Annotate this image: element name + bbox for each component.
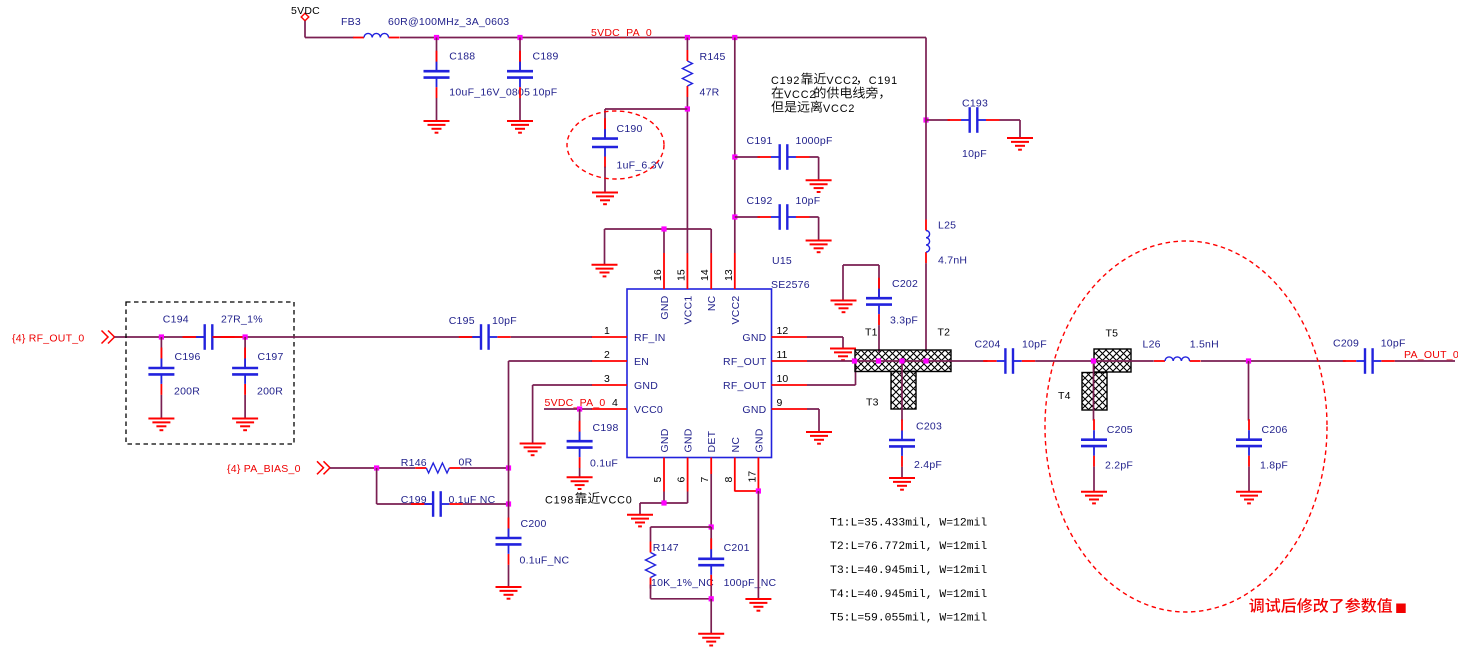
inductor L25 (926, 220, 967, 267)
ground pin9 (806, 432, 832, 444)
svg-text:T3: T3 (866, 397, 879, 409)
annotation C198 (545, 492, 633, 506)
wire (757, 491, 759, 599)
resistor R147 (646, 542, 715, 590)
svg-text:T5:L=59.055mil, W=12mil: T5:L=59.055mil, W=12mil (830, 613, 987, 625)
svg-text:DET: DET (706, 430, 718, 452)
svg-text:11: 11 (777, 349, 788, 361)
svg-text:T4:L=40.945mil, W=12mil: T4:L=40.945mil, W=12mil (830, 589, 987, 601)
wire PA_OUT_0 (1395, 360, 1455, 362)
wire (1201, 360, 1346, 362)
wire through T3 (901, 361, 903, 421)
wire pin11 (807, 360, 855, 362)
svg-text:5VDC_PA_0: 5VDC_PA_0 (591, 27, 652, 39)
ground C202 (831, 301, 857, 313)
svg-text:C191: C191 (869, 75, 898, 87)
wire (579, 468, 581, 477)
junction L25 node (923, 358, 928, 363)
wire (951, 360, 988, 362)
svg-text:SE2576: SE2576 (771, 279, 810, 291)
svg-text:17: 17 (746, 471, 758, 483)
wire pin3 gnd (533, 385, 592, 444)
capacitor C197 (232, 348, 284, 398)
wire (1248, 361, 1250, 421)
svg-text:VCC2: VCC2 (730, 296, 742, 325)
pin 17 GND (bottom) (746, 428, 765, 491)
svg-text:C193: C193 (962, 98, 988, 110)
wire (901, 467, 903, 478)
wire to pin1 (511, 336, 592, 338)
pin 9 GND (742, 397, 807, 416)
svg-text:R145: R145 (700, 51, 726, 63)
svg-text:C202: C202 (892, 278, 918, 290)
port PA_BIAS_0 (227, 461, 330, 475)
svg-text:0.1uF_NC: 0.1uF_NC (520, 555, 570, 567)
ground R147/C201 (698, 634, 724, 646)
svg-text:NC: NC (730, 437, 742, 453)
svg-text:C194: C194 (163, 314, 189, 326)
junction pin16 (661, 226, 666, 231)
svg-text:GND: GND (683, 428, 695, 452)
microstrip T4 (1082, 373, 1107, 411)
wire (710, 527, 712, 557)
svg-text:VCC2: VCC2 (826, 75, 858, 87)
junction C188 tap (434, 35, 439, 40)
junction pin8/17 (756, 488, 761, 493)
dashed box matching network (126, 302, 294, 444)
capacitor C193 (948, 98, 1000, 161)
ground C197 (232, 419, 258, 431)
svg-text:200R: 200R (174, 386, 200, 398)
wire (710, 586, 712, 599)
pin 2 EN (592, 349, 650, 368)
svg-text:14: 14 (699, 269, 711, 281)
svg-text:R147: R147 (653, 542, 679, 554)
annotation T parameters (830, 517, 987, 624)
svg-text:0R: 0R (459, 457, 473, 469)
svg-text:200R: 200R (257, 386, 283, 398)
capacitor C192 (747, 195, 821, 230)
wire (810, 157, 819, 180)
pin 8 NC (bottom) (723, 437, 742, 492)
wire (436, 38, 438, 70)
wire C190 top (605, 109, 687, 138)
svg-text:C205: C205 (1107, 424, 1133, 436)
svg-text:T3:L=40.945mil, W=12mil: T3:L=40.945mil, W=12mil (830, 565, 987, 577)
junction R145 top (685, 35, 690, 40)
wire (244, 395, 246, 419)
pin 4 VCC0 (592, 397, 664, 416)
junction C192 tap (732, 214, 737, 219)
svg-text:C204: C204 (975, 339, 1001, 351)
capacitor C189 (507, 51, 559, 99)
svg-text:U15: U15 (772, 255, 792, 267)
svg-text:13: 13 (723, 269, 735, 281)
wire (160, 395, 162, 419)
junction DET (709, 524, 714, 529)
svg-text:5: 5 (652, 477, 664, 483)
annotation line 3 (771, 101, 855, 115)
wire pin9 gnd (807, 409, 819, 432)
svg-text:27R_1%: 27R_1% (221, 314, 263, 326)
wire (519, 38, 521, 70)
junction C197 (243, 334, 248, 339)
svg-text:5VDC: 5VDC (291, 5, 320, 17)
capacitor C203 (889, 420, 942, 472)
svg-text:47R: 47R (700, 87, 720, 99)
wire pin8 to pin17 (735, 490, 759, 492)
wire (925, 263, 927, 352)
pin 11 RF_OUT (723, 349, 807, 368)
wire (1093, 467, 1095, 492)
junction C194/C196 (159, 334, 164, 339)
ground C203 (889, 478, 915, 490)
svg-text:1.5nH: 1.5nH (1190, 339, 1219, 351)
wire (735, 156, 760, 158)
svg-text:GND: GND (753, 428, 765, 452)
capacitor C196 (148, 348, 200, 398)
svg-text:6: 6 (676, 477, 688, 483)
svg-text:16: 16 (652, 269, 664, 281)
wire (508, 565, 510, 587)
wire (1248, 467, 1250, 492)
svg-text:C192: C192 (747, 195, 773, 207)
svg-text:VCC0: VCC0 (634, 404, 663, 416)
svg-text:VCC0: VCC0 (600, 495, 632, 507)
svg-text:C209: C209 (1333, 338, 1359, 350)
svg-text:C203: C203 (916, 421, 942, 433)
op-amp U15 SE2576 body (627, 255, 810, 458)
svg-text:C190: C190 (617, 123, 643, 135)
pin 13 VCC2 (top) (723, 253, 742, 325)
highlight ellipse tuning section (1045, 241, 1327, 612)
junction pin11/10 node (852, 358, 857, 363)
junction PA_BIAS split (374, 465, 379, 470)
wire pin10 (807, 361, 856, 385)
svg-text:T1:L=35.433mil, W=12mil: T1:L=35.433mil, W=12mil (830, 517, 987, 529)
wire (519, 98, 521, 121)
wire (160, 337, 162, 367)
junction C198 tap (577, 406, 582, 411)
wire 5VDC_PA_0 rail (400, 37, 926, 39)
wire pins5/6 gnd (640, 492, 688, 515)
capacitor C205 (1081, 419, 1133, 471)
svg-text:10K_1%_NC: 10K_1%_NC (651, 577, 714, 589)
wire through T4 (1093, 361, 1095, 421)
microstrip T5 (1094, 349, 1131, 372)
svg-text:VCC2: VCC2 (784, 89, 816, 101)
svg-text:L25: L25 (938, 220, 956, 232)
svg-text:4.7nH: 4.7nH (938, 255, 967, 267)
svg-text:C188: C188 (449, 51, 475, 63)
wire C202 top (843, 265, 879, 300)
wire (810, 217, 819, 241)
ground C193 (1007, 138, 1033, 150)
svg-text:3: 3 (604, 373, 610, 385)
junction C193 tap (923, 117, 928, 122)
wire (878, 325, 880, 352)
svg-text:RF_OUT: RF_OUT (723, 356, 767, 368)
wire (926, 119, 950, 121)
annotation line 2 (772, 87, 883, 101)
svg-text:C201: C201 (724, 542, 750, 554)
svg-text:C196: C196 (175, 351, 201, 363)
wire (460, 467, 508, 469)
capacitor C201 (698, 538, 776, 589)
capacitor C198 (567, 421, 619, 470)
pin 14 NC (top) (699, 253, 718, 311)
svg-text:C199: C199 (401, 494, 427, 506)
junction pin5 (661, 500, 666, 505)
junction T3 node (899, 358, 904, 363)
svg-text:{4} PA_BIAS_0: {4} PA_BIAS_0 (227, 463, 301, 475)
svg-text:1uF_6.3V: 1uF_6.3V (617, 160, 665, 172)
svg-text:2.2pF: 2.2pF (1105, 460, 1133, 472)
junction VCC2 line top (732, 35, 737, 40)
ground pins5/6 (627, 515, 653, 527)
power port 5VDC (291, 5, 320, 21)
inductor L26 (1143, 339, 1219, 362)
wire EN net (509, 361, 593, 537)
capacitor C200 (496, 518, 570, 567)
ground C200 (496, 587, 522, 599)
capacitor C191 (747, 135, 833, 170)
svg-text:GND: GND (659, 428, 671, 452)
microstrip T3 (891, 372, 916, 410)
junction C199 out (506, 501, 511, 506)
junction C191 tap (732, 154, 737, 159)
svg-text:VCC1: VCC1 (682, 296, 694, 325)
capacitor C190 (592, 118, 664, 171)
svg-text:10pF: 10pF (1022, 339, 1047, 351)
svg-text:C198: C198 (593, 422, 619, 434)
capacitor C209 (1333, 338, 1406, 374)
svg-text:10pF: 10pF (962, 148, 987, 160)
pin 6 GND (bottom) (676, 428, 695, 491)
wire (686, 38, 688, 51)
pin 1 RF_IN (592, 325, 666, 344)
ground C188 (424, 121, 450, 133)
svg-text:1.8pF: 1.8pF (1260, 460, 1288, 472)
svg-text:10pF: 10pF (492, 315, 517, 327)
svg-text:10pF: 10pF (796, 195, 821, 207)
svg-text:GND: GND (659, 295, 671, 319)
svg-text:60R@100MHz_3A_0603: 60R@100MHz_3A_0603 (388, 16, 509, 28)
pin 7 DET (bottom) (699, 430, 718, 482)
wire (213, 336, 481, 338)
svg-text:T5: T5 (1106, 328, 1119, 340)
wire VCC0 (544, 408, 592, 410)
junction C201 bottom (709, 596, 714, 601)
wire VCC1 line (686, 97, 688, 253)
ferrite bead FB3 (341, 16, 509, 38)
svg-text:8: 8 (723, 477, 735, 483)
wire (925, 38, 927, 220)
svg-text:15: 15 (675, 269, 687, 281)
svg-text:VCC2: VCC2 (823, 103, 855, 115)
ground C191 (806, 180, 832, 192)
wire through T1/T2 (855, 360, 951, 362)
svg-text:5VDC_PA_0: 5VDC_PA_0 (545, 397, 606, 409)
port RF_OUT_0 (12, 331, 115, 345)
svg-text:4: 4 (612, 397, 618, 409)
svg-text:PA_OUT_0: PA_OUT_0 (1404, 349, 1458, 361)
pin 5 GND (bottom) (652, 428, 671, 491)
svg-text:1: 1 (604, 325, 610, 337)
wire (436, 98, 438, 121)
svg-text:FB3: FB3 (341, 16, 361, 28)
microstrip T1/T2 (855, 350, 951, 372)
svg-text:C189: C189 (533, 51, 559, 63)
svg-text:EN: EN (634, 356, 649, 368)
svg-text:C195: C195 (449, 315, 475, 327)
svg-text:2.4pF: 2.4pF (914, 459, 942, 471)
pin 16 GND (top) (652, 253, 671, 320)
capacitor C202 (866, 278, 918, 327)
svg-text:3.3pF: 3.3pF (890, 315, 918, 327)
svg-text:R146: R146 (401, 457, 427, 469)
wire (604, 167, 606, 193)
svg-text:10: 10 (777, 373, 789, 385)
wire (1000, 120, 1021, 138)
capacitor C195 (449, 315, 517, 350)
ground pins8/17 (745, 599, 771, 611)
svg-text:9: 9 (777, 397, 783, 409)
svg-text:RF_OUT: RF_OUT (723, 380, 767, 392)
wire (710, 599, 712, 634)
svg-text:C197: C197 (258, 351, 284, 363)
svg-text:C191: C191 (747, 135, 773, 147)
wire VCC2 line (734, 38, 736, 254)
highlight ellipse around C190 (567, 111, 664, 179)
wire R147 bottom (651, 585, 712, 599)
svg-text:L26: L26 (1143, 339, 1161, 351)
ground C196 (148, 419, 174, 431)
wire R147 top (651, 527, 712, 542)
svg-text:12: 12 (777, 325, 789, 337)
ground C205 (1081, 492, 1107, 504)
svg-text:GND: GND (742, 404, 766, 416)
capacitor C188 (424, 51, 531, 99)
ground pin12 (830, 349, 856, 361)
pin 15 VCC1 (top) (675, 253, 694, 325)
resistor R146 (401, 457, 473, 474)
ground pins16/14 (592, 265, 618, 277)
svg-text:10uF_16V_0805: 10uF_16V_0805 (449, 87, 530, 99)
svg-text:RF_IN: RF_IN (634, 332, 666, 344)
ground pin3 (520, 444, 546, 456)
wire GND pins 16/14 (605, 229, 712, 265)
svg-text:C206: C206 (1262, 424, 1288, 436)
junction C206 node (1246, 358, 1251, 363)
junction C189 tap (517, 35, 522, 40)
svg-text:GND: GND (742, 332, 766, 344)
ground C189 (507, 121, 533, 133)
wire (579, 409, 581, 440)
capacitor C199 (401, 491, 496, 517)
capacitor C194 (163, 314, 263, 350)
pin 10 RF_OUT (723, 373, 807, 392)
svg-text:100pF_NC: 100pF_NC (724, 577, 777, 589)
resistor R145 (682, 50, 725, 99)
ground C192 (806, 241, 832, 253)
wire (244, 337, 246, 367)
wire PA_BIAS_0 (330, 467, 415, 469)
wire (463, 503, 509, 505)
pin 3 GND (592, 373, 659, 392)
junction C190 tap (685, 106, 690, 111)
annotation line 1 (771, 73, 898, 87)
wire pin12 gnd (807, 337, 843, 348)
svg-text:T1: T1 (865, 327, 878, 339)
svg-text:10pF: 10pF (533, 87, 558, 99)
junction R146 out (506, 465, 511, 470)
svg-text:T2:L=76.772mil, W=12mil: T2:L=76.772mil, W=12mil (830, 541, 987, 553)
wire 5VDC stub (304, 21, 306, 38)
svg-text:GND: GND (634, 380, 658, 392)
capacitor C206 (1236, 419, 1288, 471)
svg-text:7: 7 (699, 477, 711, 483)
svg-text:{4} RF_OUT_0: {4} RF_OUT_0 (12, 333, 84, 345)
svg-text:2: 2 (604, 349, 610, 361)
wire rail left (305, 37, 354, 39)
junction T5 node (1091, 358, 1096, 363)
svg-text:T4: T4 (1058, 390, 1071, 402)
wire DET (710, 474, 712, 527)
svg-text:T2: T2 (938, 327, 951, 339)
wire RF_OUT_0 (115, 336, 205, 338)
wire (1035, 360, 1093, 362)
ground C206 (1236, 492, 1262, 504)
svg-text:C200: C200 (521, 518, 547, 530)
capacitor C204 (975, 339, 1047, 374)
svg-text:C198: C198 (545, 495, 574, 507)
wire (735, 216, 760, 218)
ground C198 (567, 477, 593, 489)
svg-text:10pF: 10pF (1381, 338, 1406, 350)
svg-text:0.1uF: 0.1uF (590, 458, 618, 470)
ground C190 (592, 193, 618, 205)
svg-text:C192: C192 (771, 75, 800, 87)
svg-text:NC: NC (706, 295, 718, 311)
svg-text:1000pF: 1000pF (796, 135, 833, 147)
junction C202 node (876, 358, 881, 363)
wire through T5 (1094, 360, 1154, 362)
pin 12 GND (742, 325, 807, 344)
wire C199 branch (377, 468, 434, 504)
annotation tuning note (1249, 598, 1405, 613)
